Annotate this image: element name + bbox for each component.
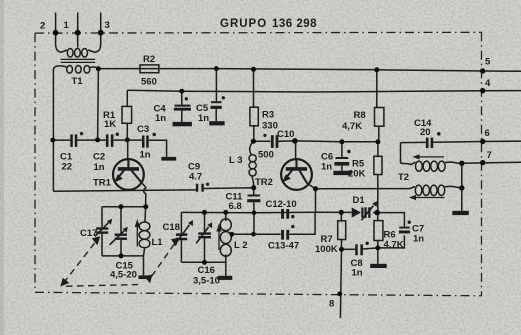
svg-text:1n: 1n: [198, 113, 209, 124]
svg-text:1n: 1n: [321, 162, 332, 173]
svg-text:L 3: L 3: [229, 155, 243, 166]
svg-text:L1: L1: [152, 237, 164, 248]
svg-text:560: 560: [141, 77, 157, 88]
svg-text:4,5-20: 4,5-20: [110, 270, 137, 281]
svg-text:3: 3: [105, 20, 110, 31]
svg-text:C18: C18: [163, 222, 180, 233]
svg-text:C16: C16: [198, 265, 215, 276]
svg-text:T2: T2: [398, 172, 409, 183]
svg-text:TR1: TR1: [93, 178, 112, 189]
svg-text:GRUPO: GRUPO: [220, 18, 267, 30]
svg-text:1n: 1n: [94, 162, 105, 173]
svg-text:1K: 1K: [104, 119, 116, 130]
svg-text:7: 7: [487, 150, 492, 161]
svg-text:20: 20: [420, 127, 431, 138]
svg-text:500: 500: [258, 150, 274, 161]
svg-text:330: 330: [262, 121, 278, 132]
svg-text:C13-47: C13-47: [268, 241, 299, 252]
svg-text:1n: 1n: [155, 113, 166, 124]
svg-text:C2: C2: [93, 152, 105, 163]
svg-text:C10: C10: [277, 129, 294, 140]
svg-text:100K: 100K: [315, 244, 338, 255]
svg-text:1n: 1n: [140, 150, 151, 161]
svg-text:C12-10: C12-10: [266, 199, 297, 210]
svg-text:4.7: 4.7: [189, 172, 202, 183]
svg-text:3,5-10: 3,5-10: [193, 276, 220, 287]
svg-text:1: 1: [64, 20, 70, 31]
svg-text:22: 22: [62, 162, 73, 173]
svg-text:4,7K: 4,7K: [342, 121, 362, 132]
svg-text:6.8: 6.8: [229, 201, 242, 212]
svg-text:L 2: L 2: [234, 240, 248, 251]
svg-text:D1: D1: [353, 195, 366, 206]
svg-text:1n: 1n: [352, 268, 363, 279]
svg-text:1n: 1n: [413, 234, 424, 245]
svg-text:R3: R3: [262, 110, 274, 121]
svg-text:20K: 20K: [348, 169, 366, 180]
svg-text:4.7K: 4.7K: [384, 240, 404, 251]
svg-text:R2: R2: [143, 54, 155, 65]
svg-text:T1: T1: [72, 76, 84, 87]
svg-text:136 298: 136 298: [272, 18, 317, 30]
svg-text:C17: C17: [80, 228, 97, 239]
svg-text:TR2: TR2: [255, 177, 273, 188]
svg-text:C3: C3: [137, 124, 149, 135]
svg-text:8: 8: [329, 299, 334, 310]
svg-text:R8: R8: [354, 110, 366, 121]
svg-text:2: 2: [40, 21, 45, 32]
svg-text:5: 5: [485, 57, 491, 68]
svg-text:4: 4: [485, 78, 491, 89]
svg-text:6: 6: [485, 128, 490, 139]
